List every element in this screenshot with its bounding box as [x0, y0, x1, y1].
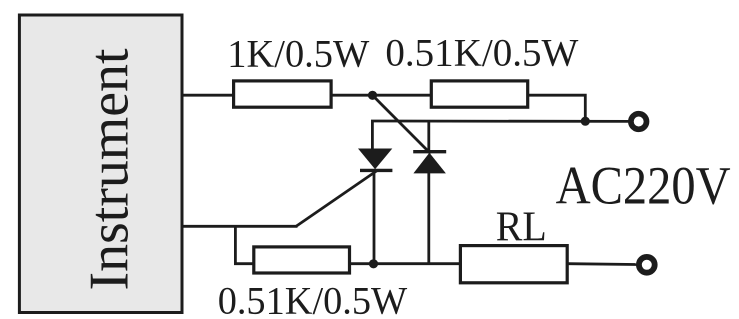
svg-text:Instrument: Instrument — [78, 48, 140, 290]
wire ac line 1 — [371, 120, 630, 123]
wire gate V2 — [373, 95, 431, 153]
resistor R2 — [431, 81, 527, 107]
wire RL to terminal — [568, 262, 638, 266]
wire R1 to R2 — [332, 94, 431, 97]
instrument box — [19, 15, 182, 313]
thyristor V2 — [413, 120, 446, 264]
terminal top — [631, 114, 647, 130]
resistor R3 — [254, 247, 350, 273]
svg-text:0.51K/0.5W: 0.51K/0.5W — [218, 278, 408, 319]
junction node gate-top — [368, 91, 377, 100]
wire R2 to line-1 corner — [528, 95, 586, 121]
wire gate V1 — [297, 171, 378, 226]
terminal bottom — [639, 257, 655, 273]
svg-text:AC220V: AC220V — [556, 156, 731, 216]
resistor RL — [460, 246, 567, 283]
label Instrument — [78, 48, 140, 290]
svg-text:1K/0.5W: 1K/0.5W — [227, 32, 370, 76]
wire drop to R3 — [235, 226, 254, 264]
svg-text:RL: RL — [496, 205, 547, 251]
resistor R1 — [234, 81, 332, 107]
wire instrument top output — [183, 94, 233, 97]
wire instrument bottom output — [183, 225, 298, 228]
svg-text:0.51K/0.5W: 0.51K/0.5W — [385, 31, 579, 75]
junction node line-1 — [581, 117, 590, 126]
thyristor V1 — [358, 120, 392, 264]
junction node bottom — [369, 259, 378, 268]
wire bottom rail — [350, 262, 460, 265]
